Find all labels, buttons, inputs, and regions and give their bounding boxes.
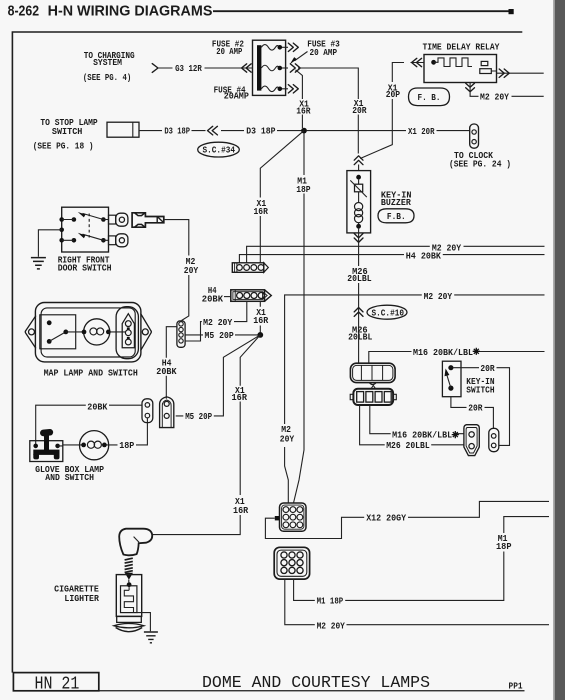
wire M26 20LBL buzzer down [347,233,372,363]
svg-text:20P: 20P [386,89,401,100]
svg-text:M2 20Y: M2 20Y [203,317,232,328]
oval S.C.#10 [367,305,407,319]
svg-text:20AMP: 20AMP [224,90,249,101]
label to stop lamp switch [33,117,98,152]
svg-text:18P: 18P [296,184,311,195]
wire D3 18P [139,125,302,136]
svg-text:M16 20BK/LBL: M16 20BK/LBL [392,429,452,440]
connector C1 4-pin [232,263,268,273]
svg-text:20R: 20R [480,363,494,374]
wire 20R top [454,363,510,445]
spade terminal top [109,213,128,226]
wire G3 12R [152,63,252,74]
time delay relay U1 [423,42,500,83]
svg-text:M5 20P: M5 20P [205,330,234,341]
svg-text:M1 18P: M1 18P [317,596,344,607]
svg-text:20BK: 20BK [156,366,176,377]
svg-text:16R: 16R [233,505,248,516]
svg-text:D3 18P: D3 18P [164,125,190,136]
connector C2 4-pin plug [202,285,271,305]
svg-text:(SEE PG. 18 ): (SEE PG. 18 ) [33,140,94,151]
wire M2 20Y C2 to C3 [185,301,247,341]
svg-text:F.B.: F.B. [387,211,406,222]
svg-text:DOOR SWITCH: DOOR SWITCH [58,263,112,274]
wire X1 16R fuse to junction [296,70,311,128]
inline connector door switch [132,213,164,227]
svg-text:AND SWITCH: AND SWITCH [45,472,94,483]
svg-text:16R: 16R [254,206,269,217]
svg-text:G3 12R: G3 12R [175,63,202,74]
wire 20BK glove box [36,401,142,446]
svg-text:M2 20Y: M2 20Y [317,621,345,632]
fuse F3 20A [261,38,340,72]
scan edge right [553,0,565,700]
wire H4 20BK C3 to bullet [156,327,177,399]
wire relay output [491,69,543,77]
connector glove box 2-hole [142,399,153,423]
connector C5 4-gang plug [350,386,396,406]
header [8,4,514,20]
svg-text:SWITCH: SWITCH [466,385,494,396]
svg-text:D3 18P: D3 18P [246,125,275,136]
fuse block [253,40,286,95]
svg-text:20Y: 20Y [184,265,199,276]
svg-text:BUZZER: BUZZER [381,197,411,208]
wire M2 20Y bottom [285,579,549,631]
svg-text:20R: 20R [352,105,367,116]
svg-text:16R: 16R [232,392,248,403]
wire M1 18P junction down [294,133,311,503]
node X1 16R junction [257,332,263,338]
ground cigarette lighter [137,613,158,643]
label to charging system [83,50,135,83]
svg-text:M2 20Y: M2 20Y [424,291,453,302]
svg-text:F. B.: F. B. [418,92,441,103]
svg-text:S.C.#34: S.C.#34 [203,145,236,156]
wire X1 20P relay to buzzer [360,58,424,158]
cigarette lighter body [114,575,144,632]
svg-text:(SEE PG. 4): (SEE PG. 4) [83,72,131,83]
wire M2 20Y bus [247,243,545,263]
svg-text:20Y: 20Y [280,433,295,444]
wire X1 20R to clock [306,126,470,137]
glove box lamp [80,431,109,460]
connector C3 inline [177,321,185,347]
svg-text:M16 20BK/LBL: M16 20BK/LBL [413,347,473,358]
wire M26 to bullet [360,405,465,451]
svg-text:8-262: 8-262 [8,4,39,20]
svg-text:18P: 18P [119,440,134,451]
label glove box lamp [35,464,104,483]
svg-text:X1 20R: X1 20R [408,126,435,137]
wire X1 16R junction to lighter [153,335,261,535]
connector C7 9-pin lower [274,547,309,579]
wire M16 20BK/LBL bus [369,347,545,363]
svg-text:20BK: 20BK [87,401,107,412]
wire M2 20Y from relay [466,83,544,103]
svg-text:M26 20LBL: M26 20LBL [386,440,430,451]
svg-text:18P: 18P [496,541,512,552]
map lamp and switch [25,303,151,379]
ground door switch [31,230,62,269]
svg-text:20 AMP: 20 AMP [216,46,242,57]
svg-text:20LBL: 20LBL [347,273,371,284]
svg-text:M5 20P: M5 20P [185,411,212,422]
footer [13,673,524,695]
svg-text:S.C.#10: S.C.#10 [372,307,405,318]
node D3/X1 junction [301,128,307,134]
bullet connector M5/H4 [160,397,174,428]
bullet connector M16/M26 [464,425,479,456]
wire M5 20P to junction [185,330,258,341]
wire 20R bottom [451,397,494,429]
svg-text:(SEE PG. 24 ): (SEE PG. 24 ) [449,158,511,169]
spade terminal bottom [109,234,128,247]
cigarette lighter boot [119,529,152,556]
wire X12 20GY [265,501,549,538]
wire M16 to bullet [370,405,465,440]
oval F.B. relay [409,88,450,106]
wire X1 20R fuse to buzzer [298,68,367,154]
fuse F2 20A [212,38,298,56]
connector C6 9-pin upper [275,503,306,531]
svg-text:X12 20GY: X12 20GY [366,512,406,523]
cigarette lighter threads [125,558,133,580]
svg-text:H4 20BK: H4 20BK [406,250,442,261]
glove box switch [30,429,84,462]
svg-text:20 AMP: 20 AMP [310,47,338,58]
svg-text:LIGHTER: LIGHTER [64,593,99,604]
connector C4 4-gang receptacle [350,363,395,384]
svg-text:MAP LAMP AND SWITCH: MAP LAMP AND SWITCH [44,367,138,378]
oval S.C.#34 [198,142,240,157]
svg-text:H-N WIRING DIAGRAMS: H-N WIRING DIAGRAMS [48,4,213,20]
svg-text:TIME DELAY RELAY: TIME DELAY RELAY [423,42,500,53]
connector to stop lamp switch [107,122,139,137]
wire X1 16R C1 pin to junction [253,301,268,332]
fuse F4 20A [214,84,299,101]
svg-text:HN 21: HN 21 [35,675,80,695]
wire X1 16R junction to connector C1 [254,131,305,263]
wire M2 20Y door switch down [164,220,199,321]
wire M2 20Y mid bus [280,291,545,503]
connector to clock [449,124,511,169]
svg-text:16R: 16R [253,315,268,326]
svg-text:SWITCH: SWITCH [52,126,83,137]
svg-text:20R: 20R [468,403,482,414]
wire H4 20BK bus [239,250,544,263]
connector 20R 2-hole [489,428,499,451]
wire 18P glove box [104,418,147,451]
right front door switch S1 [58,207,112,274]
svg-text:20LBL: 20LBL [348,332,372,343]
svg-text:16R: 16R [296,106,311,117]
label cigarette lighter [54,584,99,604]
wire junction to M5 bullet [176,335,261,416]
svg-text:PP1: PP1 [509,681,524,691]
svg-text:20BK: 20BK [202,294,223,305]
svg-text:SYSTEM: SYSTEM [93,57,122,68]
svg-text:DOME AND COURTESY LAMPS: DOME AND COURTESY LAMPS [202,674,430,693]
oval F.B. buzzer [378,209,414,223]
key-in switch S2 [442,361,494,397]
key-in buzzer [347,156,412,233]
svg-text:M2 20Y: M2 20Y [480,92,509,103]
wire M1 18P bottom [294,517,549,607]
